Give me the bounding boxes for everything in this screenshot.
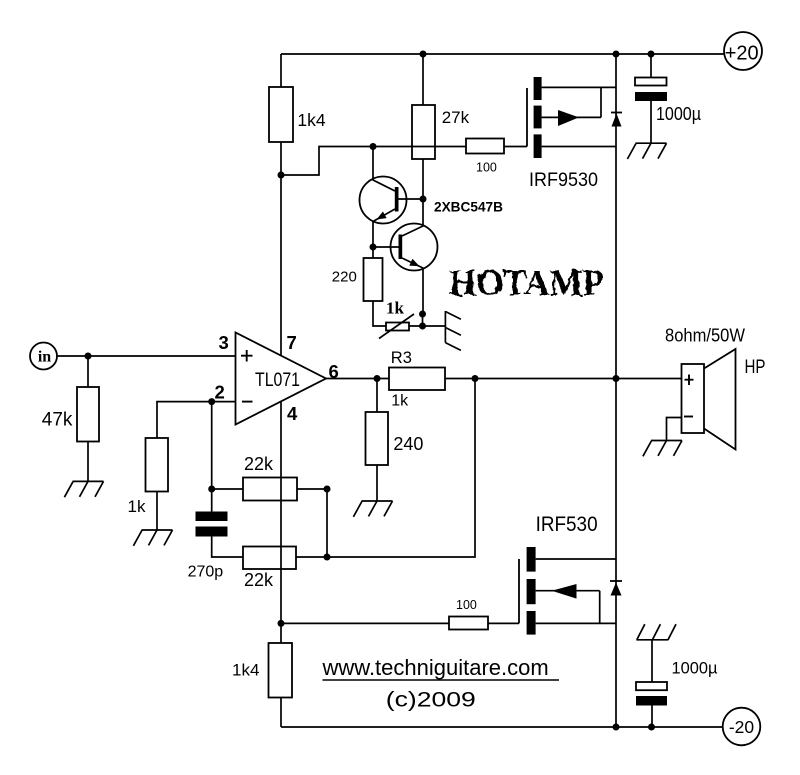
svg-text:8ohm/50W: 8ohm/50W — [665, 325, 745, 346]
wire 22k upper right lead — [297, 488, 327, 490]
wire 220 bottom lead to trimmer — [373, 301, 386, 326]
wire node to 22k upper — [212, 488, 243, 490]
svg-text:270p: 270p — [188, 563, 224, 580]
resistor R3 — [389, 368, 445, 391]
trimmer 1k arrow — [379, 314, 414, 339]
svg-text:1k4: 1k4 — [232, 661, 259, 680]
node pin 2 — [208, 398, 215, 405]
wire Q1 collector lead — [373, 147, 395, 192]
wire 270p bottom to 22k lower — [212, 537, 243, 558]
wire top cap lower lead — [650, 101, 652, 143]
node Q2 emitter — [419, 311, 426, 318]
wire node to gate drive line — [281, 147, 527, 176]
wire feedback right link — [326, 489, 328, 557]
node R3 right — [472, 375, 479, 382]
svg-text:1000µ: 1000µ — [672, 659, 718, 678]
wire 220 top lead — [372, 247, 374, 258]
resistor 22k lower (box drawn under crossing bus) — [243, 547, 296, 570]
svg-text:100: 100 — [456, 598, 477, 612]
wire IRF9530 drain to bus — [542, 146, 616, 148]
node top rail 27k — [420, 51, 427, 58]
svg-text:6: 6 — [329, 361, 339, 382]
wire Q2 emitter lead — [402, 258, 423, 314]
resistor 1k4 upper — [269, 87, 293, 142]
svg-text:22k: 22k — [244, 570, 274, 590]
ground under 47k — [64, 481, 103, 497]
capacitor 1000u upper — [635, 78, 667, 102]
wire 27k top lead — [422, 54, 424, 105]
ground under 240 — [353, 501, 392, 517]
ground chassis at trimmer — [445, 311, 461, 350]
wire op-amp output — [326, 378, 616, 380]
svg-text:22k: 22k — [244, 454, 274, 474]
label speaker plus — [685, 375, 694, 386]
svg-text:-20: -20 — [729, 717, 755, 737]
wire IRF530 drain to bus — [536, 558, 616, 560]
svg-text:240: 240 — [393, 434, 423, 454]
svg-text:27k: 27k — [442, 108, 470, 127]
wire top cap upper lead — [650, 54, 652, 78]
resistor 27k (box drawn under crossing wire) — [412, 105, 435, 159]
label op-amp minus — [242, 401, 253, 403]
wire 270p top lead — [211, 489, 213, 512]
trimmer 1k body — [386, 323, 409, 331]
svg-text:HP: HP — [745, 357, 766, 378]
svg-text:7: 7 — [287, 332, 297, 353]
capacitor 1000u lower — [636, 682, 667, 706]
svg-text:R3: R3 — [391, 349, 412, 367]
wire 27k bottom lead — [422, 159, 424, 199]
wire upper 1k4 top lead — [280, 54, 282, 87]
wire IRF530 source to bus — [536, 622, 616, 624]
diode body IRF9530 — [611, 113, 622, 127]
wire 47k bottom lead — [87, 442, 89, 482]
node input junction — [85, 353, 92, 360]
svg-text:100: 100 — [476, 161, 497, 175]
transistor Q1 BC547 — [360, 177, 407, 224]
wire feedback to output — [327, 379, 475, 558]
svg-text:1000µ: 1000µ — [656, 104, 701, 124]
mosfet IRF530 — [519, 547, 577, 635]
diode body IRF530 — [610, 581, 622, 596]
wire 100 lower to gate — [488, 622, 519, 624]
svg-text:(c)2009: (c)2009 — [386, 689, 476, 712]
svg-text:TL071: TL071 — [255, 370, 300, 391]
terminal in — [30, 343, 57, 370]
wire lower gate drive — [281, 622, 449, 624]
resistor 1k left — [146, 438, 169, 492]
wire output to speaker — [616, 378, 682, 380]
wire IRF9530 body link — [542, 87, 601, 117]
resistor 100 upper — [466, 139, 504, 154]
node trimmer ground — [419, 323, 426, 330]
ground under speaker — [643, 441, 682, 457]
wire pin 4 bus down — [280, 402, 282, 643]
resistor 22k upper (box drawn under crossing bus) — [243, 478, 297, 501]
svg-text:1k: 1k — [391, 393, 409, 410]
wire trimmer node link — [422, 314, 424, 326]
svg-text:IRF9530: IRF9530 — [529, 169, 598, 191]
wire IRF9530 source to bus — [542, 86, 616, 88]
resistor 1k4 lower — [269, 643, 293, 698]
node 22k lower right — [324, 554, 331, 561]
transistor Q2 BC547 — [391, 224, 438, 271]
node feedback left — [208, 486, 215, 493]
svg-text:1k: 1k — [128, 497, 146, 516]
mosfet IRF9530 — [527, 77, 579, 158]
wire Q1 base lead — [399, 198, 424, 200]
wire 240 top lead — [376, 379, 378, 413]
node bottom rail cap — [648, 724, 655, 731]
svg-text:220: 220 — [332, 269, 357, 286]
node 22k upper right — [324, 486, 331, 493]
svg-text:47k: 47k — [42, 410, 73, 431]
node lower gate — [278, 620, 285, 627]
node Q1 collector — [370, 143, 377, 150]
resistor 220 — [364, 258, 383, 301]
wire Q2 collector lead — [402, 199, 423, 236]
svg-text:+20: +20 — [725, 42, 759, 64]
label speaker minus — [684, 416, 693, 418]
node bus output — [613, 375, 620, 382]
svg-text:4: 4 — [287, 403, 298, 424]
wire inverting node down — [211, 402, 213, 489]
wire 47k top lead — [87, 356, 89, 387]
speaker HP — [682, 349, 736, 450]
svg-text:www.techniguitare.com: www.techniguitare.com — [322, 655, 549, 680]
resistor 100 lower — [449, 617, 488, 630]
ground under top cap — [627, 143, 666, 159]
node top rail cap — [648, 51, 655, 58]
node Q1 base Q2 collector — [420, 196, 427, 203]
svg-text:1k4: 1k4 — [297, 110, 325, 130]
op-amp U1 TL071 — [236, 333, 327, 425]
node Q1 emitter Q2 base — [370, 244, 377, 251]
wire 1k bottom lead — [156, 492, 158, 531]
wire lower 1k4 bottom lead — [280, 698, 282, 728]
label op-amp plus — [241, 350, 253, 362]
ground above bottom cap — [636, 624, 676, 640]
svg-text:2XBC547B: 2XBC547B — [434, 199, 503, 215]
resistor 47k — [77, 387, 99, 442]
svg-text:3: 3 — [219, 332, 229, 353]
wire IRF530 body link — [536, 591, 600, 624]
node output 240 — [374, 375, 381, 382]
wire pin 2 to 1k — [157, 402, 236, 438]
ground under 1k left — [133, 530, 172, 546]
capacitor 270p — [196, 512, 228, 537]
wire upper 1k4 bottom lead to node — [280, 142, 282, 356]
wire right vertical bus — [615, 54, 617, 727]
svg-text:HOTAMP: HOTAMP — [449, 263, 604, 304]
wire 240 bottom lead — [376, 465, 378, 501]
svg-text:2: 2 — [215, 382, 225, 403]
resistor 240 — [366, 412, 389, 465]
wire bottom cap leads — [651, 640, 653, 727]
wire Q1 emitter lead — [373, 209, 395, 247]
terminal +20 — [724, 32, 762, 70]
wire top positive rail — [281, 53, 725, 55]
terminal -20 — [723, 708, 761, 746]
wire speaker minus to ground — [667, 418, 682, 441]
node bottom rail bus — [613, 724, 620, 731]
svg-text:IRF530: IRF530 — [536, 513, 598, 536]
wire Q2 base lead — [373, 246, 399, 248]
wire input to pin 3 — [57, 355, 236, 357]
node top rail bus — [613, 51, 620, 58]
wire trimmer to ground — [409, 325, 445, 327]
svg-text:1k: 1k — [386, 299, 405, 318]
wire 22k lower right lead — [296, 556, 327, 558]
node upper 1k4 bottom — [278, 172, 285, 179]
wire bottom negative rail — [281, 726, 723, 728]
svg-text:in: in — [38, 349, 51, 366]
